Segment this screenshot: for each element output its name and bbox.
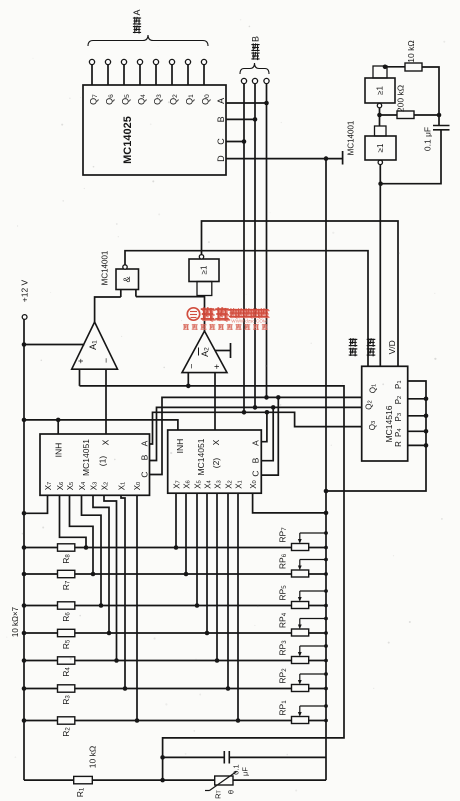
terminal	[123, 265, 127, 269]
component body	[292, 544, 309, 551]
terminal	[241, 78, 246, 83]
resistor R2	[58, 717, 75, 724]
svg-text:+: +	[212, 364, 222, 369]
junction RP7 wiper rail	[324, 531, 328, 535]
wire	[261, 412, 267, 441]
junction	[22, 418, 27, 423]
wire	[24, 720, 58, 722]
wire	[210, 772, 237, 791]
wire	[185, 493, 187, 574]
junction	[424, 429, 429, 434]
terminal Q1	[185, 59, 190, 64]
wire	[23, 319, 25, 780]
junction osc mid	[377, 113, 382, 118]
junction	[135, 718, 140, 723]
svg-text:MC14051: MC14051	[81, 439, 91, 476]
wire	[80, 386, 345, 780]
junction clk	[378, 181, 383, 186]
svg-text:MC14025: MC14025	[122, 116, 134, 164]
junction RP1 rail	[324, 719, 328, 723]
wire	[300, 645, 326, 647]
wire	[226, 141, 244, 143]
resistor R7	[58, 570, 75, 577]
component body	[168, 430, 262, 493]
wire	[205, 790, 210, 792]
wire	[261, 407, 273, 460]
brace output B	[240, 63, 269, 74]
junction	[184, 572, 189, 577]
svg-text:0.1 μF: 0.1 μF	[423, 127, 433, 151]
junction	[91, 572, 96, 577]
terminal Q4	[137, 59, 142, 64]
wire	[24, 688, 58, 690]
wire	[261, 397, 278, 475]
U6 P stub	[408, 444, 426, 446]
terminal	[22, 315, 27, 320]
junction bus R6	[22, 603, 27, 608]
junction RP6 wiper rail	[324, 558, 328, 562]
wire	[216, 493, 218, 660]
wire Q3 pin	[155, 65, 157, 85]
svg-text:200 kΩ: 200 kΩ	[396, 85, 406, 112]
junction bus R5	[22, 631, 27, 636]
resistor R3	[58, 685, 75, 692]
wire	[24, 420, 178, 430]
junction	[226, 686, 231, 691]
wire	[75, 660, 292, 662]
svg-text:D: D	[216, 155, 226, 162]
label 进位	[349, 348, 358, 357]
wire	[24, 632, 58, 634]
wire	[309, 720, 326, 722]
wire	[75, 720, 292, 722]
terminal Q5	[121, 59, 126, 64]
wire Q0 pin	[203, 65, 205, 85]
component body	[397, 111, 414, 119]
wire	[24, 547, 58, 549]
wire	[104, 495, 117, 660]
terminal	[264, 78, 269, 83]
component body	[292, 570, 309, 577]
wire	[381, 130, 441, 184]
terminal Q7	[89, 59, 94, 64]
wire	[24, 779, 74, 781]
brace output A	[88, 35, 208, 46]
junction bus R2	[22, 718, 27, 723]
wire	[300, 559, 326, 561]
svg-text:C: C	[140, 471, 150, 477]
component body	[292, 602, 309, 609]
wire	[150, 397, 362, 474]
junction A2- fb	[186, 384, 191, 389]
junction	[271, 405, 276, 410]
svg-text:MC14516: MC14516	[384, 405, 394, 442]
svg-text:X: X	[211, 439, 221, 445]
junction	[215, 658, 220, 663]
wire	[75, 688, 292, 690]
wire	[300, 590, 326, 592]
wire	[300, 705, 326, 707]
wire	[326, 381, 426, 491]
wire	[230, 343, 232, 358]
svg-text:(1): (1)	[98, 456, 108, 467]
junction	[107, 631, 112, 636]
wire	[92, 779, 214, 781]
svg-text:MC14001: MC14001	[101, 250, 110, 285]
wire	[223, 751, 225, 764]
wire	[79, 369, 81, 386]
wire	[385, 66, 405, 68]
junction B	[253, 117, 258, 122]
wire	[150, 407, 362, 460]
wire Q4 pin	[139, 65, 141, 85]
wire	[24, 573, 58, 575]
wire	[254, 84, 256, 408]
wire	[433, 129, 450, 131]
svg-text:10 kΩ: 10 kΩ	[406, 40, 416, 62]
wire Q7 pin	[91, 65, 93, 85]
wire	[75, 632, 292, 634]
junction RT line	[160, 778, 165, 783]
wire Q2 pin	[171, 65, 173, 85]
svg-text:INH: INH	[175, 439, 185, 454]
svg-text:−: −	[101, 358, 111, 363]
svg-text:0.1: 0.1	[232, 764, 241, 774]
wire	[215, 350, 231, 352]
wire	[325, 159, 327, 781]
svg-text:10 kΩ×7: 10 kΩ×7	[11, 606, 20, 637]
svg-text:B: B	[251, 36, 261, 42]
svg-text:V/D: V/D	[387, 340, 397, 354]
wire	[120, 290, 122, 298]
svg-text:INH: INH	[54, 443, 64, 458]
svg-text:−: −	[187, 364, 197, 369]
wire	[82, 495, 102, 605]
svg-text:(2): (2)	[211, 458, 221, 469]
terminal Q0	[201, 59, 206, 64]
junction	[236, 718, 241, 723]
svg-text:R: R	[394, 441, 403, 447]
svg-text:A: A	[140, 440, 150, 446]
junction bus R4	[22, 658, 27, 663]
wire	[75, 547, 292, 549]
wire	[309, 605, 326, 607]
svg-text:&: &	[122, 276, 132, 282]
op-amp A2	[182, 331, 227, 373]
component body	[116, 269, 139, 290]
wire	[243, 84, 245, 413]
junction RP1 wiper rail	[324, 704, 328, 708]
wire	[202, 221, 399, 366]
junction	[195, 603, 200, 608]
svg-text:+: +	[76, 358, 86, 363]
wire	[163, 756, 225, 758]
junction preset-V1	[324, 489, 329, 494]
junction RP5 wiper rail	[324, 589, 328, 593]
svg-text:μF: μF	[241, 767, 250, 776]
wire	[237, 493, 239, 720]
terminal	[377, 103, 381, 107]
component body	[365, 78, 395, 103]
wire	[309, 632, 326, 634]
junction	[276, 395, 281, 400]
svg-text:B: B	[251, 457, 261, 463]
U6 P stub	[408, 430, 426, 432]
component body	[375, 126, 387, 136]
junction gate1 in	[383, 65, 388, 70]
wire	[70, 495, 94, 574]
wire	[266, 84, 268, 398]
wire U4 INH stub	[57, 420, 59, 434]
component body	[292, 657, 309, 664]
wire	[433, 125, 450, 127]
wire	[196, 493, 198, 605]
resistor R5	[58, 629, 75, 636]
svg-text:C: C	[251, 470, 261, 476]
junction C	[242, 139, 247, 144]
junction RP3 wiper rail	[324, 644, 328, 648]
wire	[253, 493, 326, 513]
wire	[204, 296, 206, 332]
wire	[309, 688, 326, 690]
wire	[300, 618, 326, 620]
svg-text:+12 V: +12 V	[20, 279, 30, 302]
terminal Q6	[105, 59, 110, 64]
svg-text:MC14001: MC14001	[347, 120, 356, 155]
junction	[123, 686, 128, 691]
component body	[215, 776, 233, 785]
resistor R4	[58, 657, 75, 664]
component body	[74, 776, 93, 783]
wire	[93, 495, 109, 633]
wire	[136, 495, 138, 720]
wire	[226, 158, 342, 160]
svg-text:≥1: ≥1	[376, 86, 385, 95]
svg-text:B: B	[140, 454, 150, 460]
wire	[380, 114, 398, 116]
junction	[264, 395, 269, 400]
watermark	[183, 307, 270, 330]
wire Q1 pin	[187, 65, 189, 85]
component body	[373, 66, 387, 78]
wire	[300, 532, 326, 534]
wire	[300, 673, 326, 675]
junction 12V-A1	[22, 342, 27, 347]
resistor R8	[58, 544, 75, 551]
scan noise	[150, 123, 152, 125]
svg-text:A: A	[132, 9, 142, 15]
svg-text:10 kΩ: 10 kΩ	[87, 746, 97, 768]
component body	[83, 85, 226, 175]
component body	[405, 63, 422, 71]
wire	[60, 495, 87, 547]
U6 P stub	[408, 398, 426, 400]
junction A	[264, 101, 269, 106]
wire	[227, 493, 229, 688]
wire	[75, 605, 292, 607]
wire	[379, 165, 381, 367]
wire A1- to U4 X	[105, 369, 107, 434]
junction	[174, 545, 179, 550]
terminal Q2	[169, 59, 174, 64]
junction	[265, 410, 270, 415]
wire A2+ to U5 X	[214, 373, 216, 430]
svg-text:A: A	[216, 98, 226, 104]
junction	[242, 410, 247, 415]
junction D-V1	[324, 156, 329, 161]
svg-text:MC14051: MC14051	[196, 438, 206, 475]
terminal	[378, 160, 382, 164]
wire	[226, 118, 255, 120]
wire	[187, 373, 189, 386]
svg-text:C: C	[216, 138, 226, 145]
component body	[197, 282, 212, 296]
junction	[22, 511, 27, 516]
wire	[95, 297, 121, 322]
terminal	[199, 255, 203, 259]
svg-text:X: X	[101, 439, 111, 445]
component body	[292, 717, 309, 724]
wire	[175, 493, 177, 547]
U6 P stub	[408, 415, 426, 417]
component body	[365, 136, 396, 160]
terminal Q3	[153, 59, 158, 64]
wire	[75, 573, 292, 575]
component body	[362, 366, 408, 461]
junction	[324, 511, 329, 516]
svg-text:WWW.dzsc.COM: WWW.dzsc.COM	[231, 319, 267, 324]
wire	[136, 296, 205, 298]
svg-text:≥1: ≥1	[200, 265, 209, 274]
svg-text:≥1: ≥1	[376, 143, 385, 152]
junction RP6 rail	[324, 572, 328, 576]
wire	[135, 290, 137, 297]
wire	[24, 344, 85, 346]
op-amp A1	[72, 322, 118, 369]
junction	[205, 631, 210, 636]
junction RP4 wiper rail	[324, 617, 328, 621]
junction RP5 rail	[324, 604, 328, 608]
wire Q6 pin	[107, 65, 109, 85]
wire	[414, 114, 439, 116]
wire	[229, 756, 326, 758]
component body	[40, 434, 150, 495]
wire	[125, 251, 368, 367]
label 输出B	[251, 52, 259, 60]
junction	[424, 443, 429, 448]
wire	[24, 660, 58, 662]
wire	[228, 751, 230, 764]
junction	[99, 603, 104, 608]
label 时钟	[367, 348, 376, 357]
label 输出A	[133, 25, 141, 33]
svg-text:B: B	[216, 116, 226, 122]
junction	[114, 658, 119, 663]
junction	[84, 545, 89, 550]
wire	[422, 67, 439, 126]
junction 200k rail	[437, 113, 442, 118]
junction RP4 rail	[324, 631, 328, 635]
wire	[342, 151, 344, 165]
wire	[309, 660, 326, 662]
wire Q5 pin	[123, 65, 125, 85]
wire	[24, 605, 58, 607]
junction RP7 rail	[324, 546, 328, 550]
wire	[150, 412, 362, 444]
junction bus R8	[22, 545, 27, 550]
junction bus R3	[22, 686, 27, 691]
junction RP3 rail	[324, 659, 328, 663]
junction	[424, 397, 429, 402]
junction RP2 wiper rail	[324, 672, 328, 676]
junction RP2 rail	[324, 687, 328, 691]
wire	[206, 493, 208, 633]
component body	[292, 685, 309, 692]
terminal	[252, 78, 257, 83]
wire	[379, 108, 381, 126]
junction	[56, 418, 61, 423]
junction	[253, 405, 258, 410]
junction cap left	[160, 755, 165, 760]
wire	[309, 547, 326, 549]
wire	[233, 779, 326, 781]
wire	[24, 495, 48, 513]
svg-text:θ: θ	[227, 790, 236, 794]
component body	[292, 629, 309, 636]
junction bus R7	[22, 572, 27, 577]
resistor R6	[58, 602, 75, 609]
A2 overbar	[198, 348, 200, 356]
wire	[226, 102, 267, 104]
junction	[424, 414, 429, 419]
component body	[189, 259, 219, 282]
wire	[309, 573, 326, 575]
svg-text:A: A	[251, 440, 261, 446]
wire	[121, 495, 125, 688]
